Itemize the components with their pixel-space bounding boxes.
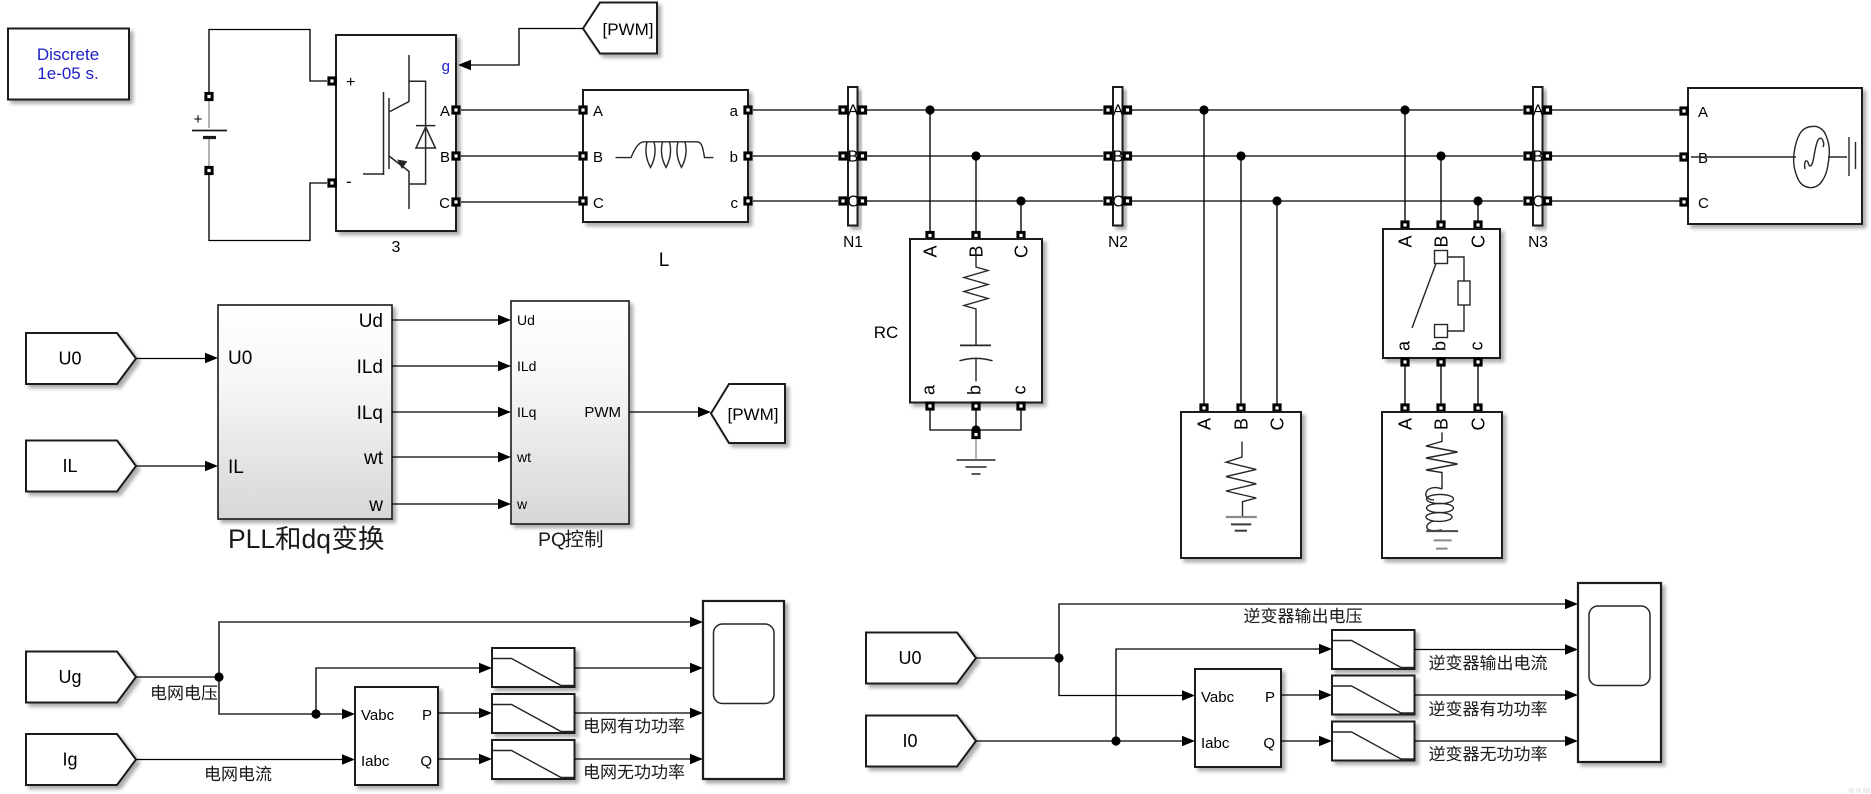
wire: Ug up to scope1 (219, 622, 690, 677)
svg-text:Vabc: Vabc (361, 707, 395, 724)
port: N3 B left (1523, 151, 1532, 160)
svg-text:3: 3 (392, 239, 401, 256)
node: tap C to breaker (1473, 196, 1482, 205)
svg-text:[PWM]: [PWM] (603, 20, 654, 39)
node: tap B to breaker (1436, 151, 1445, 160)
port: load2 A (1400, 403, 1409, 412)
svg-text:PQ: PQ (538, 529, 566, 551)
wire: RC b down (975, 410, 977, 430)
port: N3 C right (1543, 196, 1552, 205)
tag: input IL (to PLL) (26, 441, 136, 492)
icon: breaker contact and snubber (1412, 251, 1470, 338)
port: bridge B (451, 151, 460, 160)
port: bridge - (327, 178, 336, 187)
label: 逆变器输出电压 (1244, 608, 1362, 624)
block: three-phase R load (1181, 412, 1301, 558)
port: RC C (1016, 231, 1025, 240)
block: low-pass filter F3 (grid Q) (492, 740, 575, 779)
node: tap B to load1 (1236, 151, 1245, 160)
svg-text:B: B (1431, 235, 1451, 247)
port: N2 B right (1123, 151, 1132, 160)
svg-text:A: A (593, 103, 603, 120)
wire: Q to filter3 (inv) (1281, 740, 1319, 742)
label: 逆变器无功功率 (1429, 746, 1546, 762)
label: 电网有功功率 (585, 718, 684, 734)
block: power measurement Vabc/Iabc (inverter) (1195, 669, 1281, 767)
bus: N1 (847, 87, 859, 226)
block: series inductor L (583, 90, 748, 222)
port: breaker C (1473, 220, 1482, 229)
port: bridge + (327, 76, 336, 85)
node: tap A to RC (925, 105, 934, 114)
wire: tap B down to load1 (1240, 156, 1242, 404)
port: N2 A left (1103, 105, 1112, 114)
icon: inductor coil (616, 142, 714, 158)
svg-text:IL: IL (62, 456, 77, 476)
port: N1 C left (838, 196, 847, 205)
wire: Ug to junction (136, 676, 219, 678)
wire: V to filter1 (316, 668, 479, 714)
block: three-phase series RC branch "RC" (910, 239, 1042, 403)
node: I0 junction (1111, 736, 1120, 745)
node: tap A to breaker (1400, 105, 1409, 114)
port: RC B (971, 231, 980, 240)
svg-text:A: A (1113, 103, 1124, 120)
svg-text:I0: I0 (902, 731, 917, 751)
port: load2 B (1436, 403, 1445, 412)
wire: battery+ to bridge+ (209, 30, 327, 93)
wire: I0 up to filter1 (1116, 649, 1319, 741)
bus: N2 (1112, 87, 1124, 226)
wire: Ig to Iabc (136, 759, 342, 761)
wire: phase A bridge to L (461, 109, 578, 111)
ground: RC neutral ground (957, 439, 996, 474)
svg-text:w: w (516, 496, 528, 512)
block: three-phase AC source (1688, 88, 1862, 224)
block: subsystem "PQ控制" (511, 301, 629, 524)
svg-text:C: C (1267, 418, 1287, 431)
svg-text:C: C (1468, 418, 1488, 431)
wire: filter3 to scope4 (575, 758, 691, 760)
svg-text:Q: Q (1263, 735, 1275, 752)
svg-text:A: A (920, 245, 940, 257)
wire: tap C down to breaker (1477, 201, 1479, 225)
svg-text:C: C (1532, 194, 1544, 211)
wire: phase B L to N1 (753, 155, 838, 157)
port: load2 C (1473, 403, 1482, 412)
svg-text:A: A (1395, 235, 1415, 247)
svg-text:B: B (1231, 418, 1251, 430)
icon: load2 resistor (1426, 432, 1458, 548)
block: power measurement Vabc/Iabc (grid) (355, 687, 438, 785)
svg-text:C: C (847, 194, 859, 211)
svg-text:L: L (659, 250, 670, 271)
port: L C (578, 196, 587, 205)
block: three-phase breaker (1383, 229, 1500, 358)
wire: RC outputs joined (930, 410, 1021, 430)
port: N1 C right (858, 196, 867, 205)
svg-text:B: B (1113, 149, 1124, 166)
svg-text:U0: U0 (898, 648, 921, 668)
block: powergui "Discrete 1e-05 s." (8, 29, 129, 100)
wire: Ud PLL to PQ (392, 319, 498, 321)
tag: input Ig (grid current) (26, 734, 136, 785)
tag: input I0 (inverter current) (866, 716, 976, 767)
wire: phase A N1 to N2 (867, 109, 1103, 111)
port: ground port (971, 430, 980, 439)
wire: U0 to junction (976, 657, 1059, 659)
block: scope (inverter) (1578, 583, 1661, 762)
block: subsystem "PLL和dq变换" (218, 305, 392, 519)
svg-text:wt: wt (516, 449, 531, 465)
svg-text:a: a (1394, 340, 1414, 351)
wire: phase B N3 to source (1552, 155, 1683, 157)
svg-text:U0: U0 (58, 349, 81, 369)
svg-text:C: C (593, 195, 604, 212)
port: RC c (1016, 401, 1025, 410)
svg-text:C: C (1698, 195, 1709, 212)
icon: AC source circle with sine and impedance (1691, 126, 1856, 187)
svg-text:w: w (368, 495, 383, 516)
port: L A (578, 105, 587, 114)
wire: filter2 to scope3 (575, 712, 691, 714)
svg-text:a: a (730, 103, 739, 120)
wire: phase C bridge to L (461, 201, 579, 204)
wire: IL to PLL (136, 465, 205, 467)
wire: wt PLL to PQ (392, 456, 498, 458)
wire: phase A L to N1 (753, 109, 838, 111)
wire: phase B N1 to N2 (867, 155, 1103, 157)
wire: breaker a to load2 (1404, 366, 1406, 404)
wire: phase C N1 to N2 (867, 200, 1103, 202)
svg-text:P: P (1265, 689, 1275, 706)
svg-text:Discrete: Discrete (37, 45, 99, 64)
wire: phase C L to N1 (753, 200, 838, 202)
wire: U0 up to scope1 (1059, 604, 1565, 658)
node: V junction 2 (311, 709, 320, 718)
component: DC voltage source (battery) (192, 101, 227, 166)
wire: breaker b to load2 (1440, 366, 1442, 404)
node: RC neutral (971, 425, 980, 434)
svg-text:Ud: Ud (359, 311, 383, 332)
svg-text:B: B (440, 149, 450, 166)
port: N2 C right (1123, 196, 1132, 205)
svg-text:N1: N1 (843, 234, 863, 251)
svg-text:B: B (593, 149, 603, 166)
bus: N3 (1532, 87, 1544, 226)
svg-text:C: C (1468, 235, 1488, 248)
svg-text:ILd: ILd (517, 358, 536, 374)
wire: U0 to PLL (136, 358, 205, 360)
svg-text:c: c (1010, 386, 1030, 395)
wire: phase B bridge to L (461, 155, 578, 157)
port: N3 B right (1543, 151, 1552, 160)
port: N1 A left (838, 105, 847, 114)
port: N2 C left (1103, 196, 1112, 205)
port: L c (743, 196, 752, 205)
tag: input U0 (to PLL) (26, 333, 136, 384)
wire: Q to filter3 (438, 758, 479, 760)
svg-text:C: C (439, 195, 450, 212)
icon: load1 resistor to ground (1226, 442, 1257, 531)
svg-text:1e-05 s.: 1e-05 s. (37, 64, 98, 83)
svg-text:ILq: ILq (357, 403, 383, 424)
svg-text:a: a (919, 384, 939, 395)
wire: phase C N3 to source (1552, 200, 1683, 202)
svg-text:B: B (1698, 150, 1708, 167)
svg-text:A: A (1194, 418, 1214, 430)
svg-text:IL: IL (228, 457, 244, 478)
block: low-pass filter F4 (inv I) (1332, 630, 1415, 669)
port: N3 C left (1523, 196, 1532, 205)
icon: IGBT with anti-parallel diode (363, 55, 435, 209)
wire: Ug down to Vabc (219, 677, 342, 714)
block: three-phase RL load (1382, 412, 1502, 558)
wire: battery- to bridge- (209, 175, 327, 241)
port: L B (578, 151, 587, 160)
tag: From [PWM] (583, 3, 657, 54)
svg-text:wt: wt (363, 448, 384, 469)
label: 电网无功功率 (585, 764, 684, 780)
tag: Goto [PWM] (711, 384, 785, 443)
label: 电网电流 (206, 766, 271, 782)
port: breaker A (1400, 220, 1409, 229)
wire: tap C down to load1 (1276, 201, 1278, 404)
wire: ILq PLL to PQ (392, 411, 498, 413)
port: N3 A left (1523, 105, 1532, 114)
tag: input U0 (inverter voltage) (866, 633, 976, 684)
block: low-pass filter F6 (inv Q) (1332, 722, 1415, 761)
port: source C (1679, 197, 1688, 206)
svg-text:A: A (1395, 418, 1415, 430)
svg-text:ILq: ILq (517, 404, 536, 420)
block: scope (grid) (703, 601, 784, 779)
port: load1 A (1199, 403, 1208, 412)
icon: load2 inductor coil (1426, 488, 1442, 500)
wire: phase A N2 to N3 (1132, 109, 1523, 111)
port: source B (1679, 152, 1688, 161)
port: RC b (971, 401, 980, 410)
svg-text:Iabc: Iabc (361, 753, 390, 770)
svg-text:g: g (442, 58, 450, 75)
svg-text:U0: U0 (228, 348, 252, 369)
port: L a (743, 105, 752, 114)
svg-text:A: A (1698, 104, 1708, 121)
port: N1 B left (838, 151, 847, 160)
wire: P to filter2 (438, 712, 479, 714)
port: RC a (925, 401, 934, 410)
port: load1 B (1236, 403, 1245, 412)
port: N3 A right (1543, 105, 1552, 114)
svg-text:Ud: Ud (517, 312, 535, 328)
svg-text:C: C (1112, 194, 1124, 211)
svg-text:+: + (346, 74, 355, 91)
wire: ILd PLL to PQ (392, 365, 498, 367)
wire: tap B down to RC (975, 156, 977, 231)
wire: filter6 to scope4 (1415, 740, 1566, 742)
svg-text:+: + (194, 111, 203, 128)
port: source A (1679, 106, 1688, 115)
wire: I0 to Iabc (976, 740, 1182, 742)
port: breaker B (1436, 220, 1445, 229)
wire: tap C down to RC (1020, 201, 1022, 231)
port: breaker c (1473, 357, 1482, 366)
svg-text:b: b (1430, 341, 1450, 351)
svg-text:PWM: PWM (584, 404, 621, 421)
port: breaker b (1436, 357, 1445, 366)
svg-text:A: A (848, 103, 859, 120)
svg-text:[PWM]: [PWM] (728, 405, 779, 424)
label: 逆变器有功功率 (1429, 701, 1546, 717)
wire: tap A down to load1 (1203, 110, 1205, 404)
label: 电网电压 (152, 685, 217, 701)
tag: input Ug (grid voltage) (26, 652, 136, 703)
port: bridge A (451, 105, 460, 114)
wire: tap B down to breaker (1440, 156, 1442, 225)
block: low-pass filter F2 (grid P) (492, 694, 575, 733)
port: L b (743, 151, 752, 160)
port: battery + (204, 92, 213, 101)
svg-text:c: c (1467, 342, 1487, 351)
port: N2 A right (1123, 105, 1132, 114)
svg-text:PLL: PLL (228, 524, 275, 554)
port: bridge C (451, 197, 460, 206)
port: battery - (204, 166, 213, 175)
node: tap C to RC (1016, 196, 1025, 205)
svg-text:-: - (346, 172, 352, 191)
wire: phase C N2 to N3 (1132, 200, 1523, 202)
svg-text:dq: dq (302, 524, 331, 554)
port: load1 C (1272, 403, 1281, 412)
node: tap A to load1 (1199, 105, 1208, 114)
wire: tap A down to RC (929, 110, 931, 231)
port: breaker a (1400, 357, 1409, 366)
svg-text:P: P (422, 707, 432, 724)
wire: filter1 to scope2 (575, 667, 691, 669)
svg-text:N3: N3 (1528, 234, 1548, 251)
svg-text:ILd: ILd (357, 357, 383, 378)
wire: tap A down to breaker (1404, 110, 1406, 225)
block: universal bridge (IGBT) "3" (336, 35, 456, 231)
block: low-pass filter F5 (inv P) (1332, 676, 1415, 715)
port: RC A (925, 231, 934, 240)
node: tap C to load1 (1272, 196, 1281, 205)
svg-text:c: c (731, 195, 739, 212)
icon: resistor (RC branch) (964, 253, 988, 345)
node: U0 junction (1054, 653, 1063, 662)
wire: P to filter2 (inv) (1281, 694, 1319, 696)
decorative (1849, 788, 1870, 793)
wire: U0 down to Vabc (1059, 658, 1182, 696)
wire: phase B N2 to N3 (1132, 155, 1523, 157)
svg-text:Ug: Ug (58, 667, 81, 687)
node: Ug junction (214, 672, 223, 681)
svg-text:RC: RC (874, 323, 899, 342)
wire: PWM to Goto tag (629, 411, 700, 413)
wire: From[PWM] to bridge g (471, 29, 583, 66)
port: N1 B right (858, 151, 867, 160)
svg-text:b: b (965, 385, 985, 395)
svg-text:A: A (1533, 103, 1544, 120)
svg-text:B: B (1431, 418, 1451, 430)
svg-text:A: A (440, 103, 450, 120)
svg-text:b: b (730, 149, 738, 166)
svg-text:C: C (1011, 245, 1031, 258)
svg-text:B: B (1533, 149, 1544, 166)
node: tap B to RC (971, 151, 980, 160)
wire: filter5 to scope3 (1415, 694, 1566, 696)
wire: breaker c to load2 (1477, 366, 1479, 404)
icon: capacitor (RC branch) (960, 344, 991, 346)
svg-text:Iabc: Iabc (1201, 735, 1230, 752)
svg-text:N2: N2 (1108, 234, 1128, 251)
svg-text:Q: Q (420, 753, 432, 770)
wire: w PLL to PQ (392, 503, 498, 505)
svg-text:Vabc: Vabc (1201, 689, 1235, 706)
port: N1 A right (858, 105, 867, 114)
port: N2 B left (1103, 151, 1112, 160)
svg-text:Ig: Ig (62, 750, 77, 770)
svg-text:B: B (848, 149, 859, 166)
block: low-pass filter F1 (grid V) (492, 648, 575, 687)
wire: phase A N3 to source (1552, 109, 1683, 111)
label: 逆变器输出电流 (1429, 655, 1547, 671)
wire: filter4 to scope2 (1415, 649, 1566, 651)
